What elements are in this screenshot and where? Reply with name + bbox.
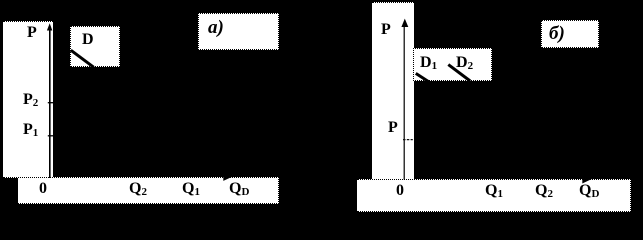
left vertical axis shaft xyxy=(49,26,51,178)
label P (right axis price level) xyxy=(388,120,398,136)
left horizontal axis arrowhead xyxy=(223,173,232,181)
left graph: quantity axis text box xyxy=(18,177,279,205)
left axis tick P1 xyxy=(48,135,53,137)
left vertical axis arrowhead xyxy=(47,23,52,30)
right demand curve D2 xyxy=(448,65,470,81)
label 0 (right origin) xyxy=(396,183,404,199)
right horizontal axis arrowhead xyxy=(582,175,592,184)
right axis dashed tick P xyxy=(403,139,413,141)
right demand curve D1 xyxy=(416,73,430,82)
right graph: demand label box D1 D2 xyxy=(413,48,492,81)
caption b) xyxy=(549,24,565,43)
left graph: price axis text box xyxy=(3,21,54,178)
label D1 xyxy=(420,55,437,72)
label P (right axis top) xyxy=(381,22,391,38)
caption a) xyxy=(208,18,224,37)
right vertical axis shaft xyxy=(403,24,405,180)
label P (left axis) xyxy=(27,25,37,41)
label Q1 (left) xyxy=(182,181,200,198)
left axis tick P2 xyxy=(48,102,53,104)
right graph: price axis text box xyxy=(372,2,414,181)
label D2 xyxy=(456,55,473,72)
caption box a) xyxy=(198,13,280,50)
caption box b) xyxy=(541,20,599,48)
label Q1 (right) xyxy=(485,183,503,200)
label D (left demand curve) xyxy=(82,32,94,48)
label Q2 (right) xyxy=(535,183,553,200)
right graph: quantity axis text box xyxy=(357,179,631,212)
label QD (left) xyxy=(229,181,249,198)
left graph: demand label box D xyxy=(70,26,119,67)
right vertical axis arrowhead xyxy=(401,19,408,27)
label 0 (left origin) xyxy=(39,181,47,197)
label Q2 (left) xyxy=(129,181,147,198)
label P2 xyxy=(23,92,38,109)
left demand curve D xyxy=(71,50,94,67)
label P1 xyxy=(23,122,38,139)
label QD (right) xyxy=(579,183,599,200)
